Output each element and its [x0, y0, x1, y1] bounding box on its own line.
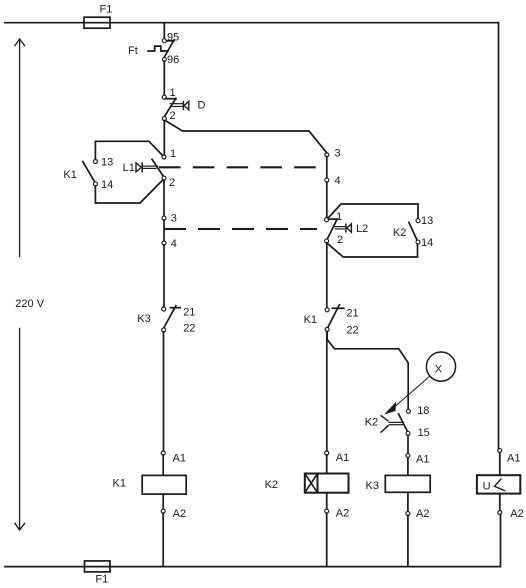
node A2 (K2 coil) [325, 508, 350, 520]
wire A2 to bottom rail [407, 515, 409, 566]
node 2 (S2 button) [325, 234, 344, 246]
node 2 (D contact) [162, 110, 175, 122]
svg-text:4: 4 [171, 238, 177, 250]
mechanical link dashed 1 [159, 166, 319, 168]
node 15 (K2 contact) [406, 427, 430, 439]
wire A1 to coil K3 [407, 458, 409, 476]
svg-text:2: 2 [337, 234, 343, 246]
svg-text:A2: A2 [336, 508, 349, 520]
svg-text:A2: A2 [173, 508, 186, 520]
contact K2 13-14 blade [409, 222, 417, 240]
svg-text:13: 13 [101, 157, 113, 169]
lamp actuator L2 [333, 223, 368, 235]
wire node4 to K3 21 [163, 245, 165, 307]
node A2 (K1 coil) [161, 508, 186, 520]
svg-text:18: 18 [417, 405, 429, 417]
svg-text:K2: K2 [365, 417, 378, 429]
svg-text:96: 96 [167, 54, 179, 66]
node 2 (S1 button) [162, 176, 175, 189]
svg-text:220 V: 220 V [15, 298, 44, 310]
wire coil K2 to A2 [326, 493, 328, 510]
svg-text:Ft: Ft [128, 45, 138, 57]
node 3 (left) [162, 213, 177, 225]
svg-text:13: 13 [421, 215, 433, 227]
contact bridge 3-4 (right) [326, 157, 328, 179]
wire top rail L+ [5, 22, 499, 24]
release device D [170, 100, 206, 112]
node 4 (right) [325, 175, 341, 187]
svg-text:L2: L2 [356, 223, 368, 235]
svg-text:A1: A1 [416, 454, 429, 466]
svg-text:2: 2 [170, 110, 176, 122]
wire coil K1 to A2 [162, 494, 164, 509]
node 95 [162, 31, 179, 43]
node 1 (D contact) [162, 87, 175, 99]
coil K2 (with remanence X) [265, 474, 349, 493]
node 3 (right) [325, 148, 341, 160]
wire U relay to A2 [499, 494, 501, 511]
contact K1 13-14 branch wires (top) [95, 141, 162, 159]
node 14 (K1) [93, 179, 113, 191]
svg-text:22: 22 [346, 325, 358, 337]
wire rail to node 95 [163, 23, 165, 39]
wire A2 to bottom rail [162, 513, 164, 567]
svg-text:15: 15 [418, 427, 430, 439]
indicator X circle [426, 352, 455, 381]
dimension arrow 220 V [15, 39, 45, 530]
svg-text:L1: L1 [123, 162, 135, 174]
wire A1 to coil K2 [326, 455, 328, 474]
wire A1 to U relay [499, 453, 501, 476]
wire A1 to coil K1 [162, 455, 164, 476]
wire node2 down to L1 node1 [163, 121, 165, 156]
svg-text:U: U [483, 481, 491, 493]
wire node2 to right branch node 3 [166, 121, 327, 153]
contact K2 13-14 branch wires (top) [328, 204, 418, 219]
wire K1 22 to node 18 branch [327, 331, 408, 409]
svg-text:2: 2 [169, 177, 175, 189]
actuator K2 15-18 [365, 415, 404, 432]
svg-text:K1: K1 [63, 169, 76, 181]
wire right edge from top rail to A1 [498, 23, 500, 449]
svg-text:3: 3 [335, 148, 341, 160]
node 22 (K1 NC) [325, 325, 359, 337]
node A1 (K3 coil) [406, 454, 430, 466]
svg-text:14: 14 [421, 237, 433, 249]
node A1 (K1 coil) [161, 451, 186, 465]
svg-text:A1: A1 [336, 452, 349, 464]
lamp actuator L1 [123, 162, 158, 174]
node 18 (K2 contact) [406, 405, 429, 417]
svg-text:X: X [435, 364, 443, 376]
contact K1 21-22 NC blade [304, 305, 344, 329]
svg-text:F1: F1 [100, 3, 113, 15]
node A2 (K3 coil) [406, 508, 430, 520]
wire node 15 to A1 (K3 coil) [407, 435, 409, 454]
svg-text:4: 4 [335, 175, 341, 187]
svg-text:K2: K2 [393, 227, 406, 239]
arrow from X to K2 contact [386, 376, 430, 413]
node A2 (U relay) [498, 508, 524, 520]
mechanical link dashed 2 [164, 228, 317, 230]
contact K1 13-14 branch wires (bottom) [95, 180, 162, 203]
svg-text:1: 1 [170, 87, 176, 99]
contact D blade [164, 99, 176, 117]
node A1 (U relay) [498, 449, 521, 465]
contact K3 21-22 NC blade [137, 306, 180, 328]
svg-text:A1: A1 [507, 453, 520, 465]
contact K2 13-14 branch wires (bottom) [328, 244, 417, 257]
coil K3 [366, 475, 431, 492]
undervoltage relay U< [477, 475, 520, 493]
node 4 (left) [162, 238, 177, 250]
node 96 [162, 54, 179, 66]
svg-text:A1: A1 [173, 453, 186, 465]
thermal overload contact Ft [128, 40, 174, 57]
pushbutton S2 NC blade [327, 219, 337, 239]
fuse F1 (top) [84, 3, 112, 28]
node 1 (S1 button) [162, 148, 176, 160]
svg-text:K1: K1 [113, 478, 126, 490]
wire A2 to bottom rail [326, 513, 328, 567]
node 14 (K2) [416, 237, 433, 249]
svg-text:14: 14 [101, 179, 113, 191]
node 13 (K2) [416, 215, 433, 227]
svg-text:21: 21 [183, 307, 195, 319]
contact bridge 3-4 (left) [163, 220, 165, 241]
wire node4 to node1 (right) [326, 182, 328, 218]
svg-text:K2: K2 [265, 479, 278, 491]
node 21 (K1 NC) [325, 308, 359, 320]
svg-text:F1: F1 [95, 574, 108, 586]
contact K2 15-18 blade [399, 414, 408, 431]
svg-text:K3: K3 [137, 313, 150, 325]
wire 96 to 1 [163, 61, 165, 95]
fuse F1 (bottom) [85, 561, 111, 586]
wire S2 node2 to K1 21 [326, 243, 328, 308]
wire K1 22 down to A1 (K2 coil) [326, 331, 328, 451]
node 22 (K3) [162, 323, 196, 335]
node 21 (K3) [162, 307, 196, 319]
svg-text:K3: K3 [366, 480, 379, 492]
node 13 (K1) [93, 157, 113, 169]
wire A2 to bottom rail [500, 514, 502, 566]
contact K1 13-14 blade [83, 162, 95, 183]
wire bottom rail L- [5, 566, 501, 568]
coil K1 [113, 475, 187, 494]
wire K3 22 to A1 [163, 332, 165, 451]
svg-text:22: 22 [183, 323, 195, 335]
svg-text:21: 21 [346, 308, 358, 320]
node A1 (K2 coil) [325, 451, 350, 464]
node 1 (S2 button) [325, 211, 343, 223]
svg-text:1: 1 [170, 148, 176, 160]
wire S1 node2 to node 3 [163, 180, 165, 216]
pushbutton S1 blade [152, 159, 164, 176]
svg-text:3: 3 [171, 213, 177, 225]
svg-text:K1: K1 [304, 314, 317, 326]
svg-text:D: D [198, 100, 206, 112]
svg-text:A2: A2 [510, 508, 523, 520]
wire coil K3 to A2 [407, 492, 409, 511]
svg-text:A2: A2 [416, 508, 429, 520]
